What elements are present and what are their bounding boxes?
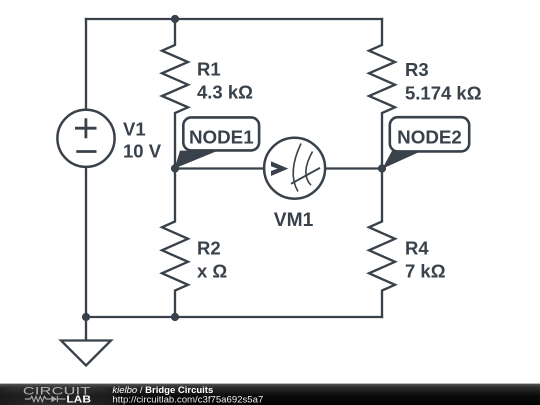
svg-text:VM1: VM1 — [274, 210, 314, 231]
svg-text:R3: R3 — [405, 59, 429, 80]
svg-text:7 kΩ: 7 kΩ — [405, 260, 446, 281]
svg-text:http://circuitlab.com/c3f75a69: http://circuitlab.com/c3f75a692s5a7 — [112, 395, 263, 405]
svg-text:5.174 kΩ: 5.174 kΩ — [405, 83, 482, 104]
svg-text:4.3 kΩ: 4.3 kΩ — [197, 82, 253, 103]
svg-text:NODE1: NODE1 — [189, 126, 254, 147]
svg-text:R1: R1 — [197, 59, 221, 80]
svg-text:R4: R4 — [405, 237, 429, 258]
svg-text:x Ω: x Ω — [197, 260, 227, 281]
svg-text:LAB: LAB — [66, 394, 91, 405]
svg-text:10 V: 10 V — [123, 141, 162, 162]
svg-text:NODE2: NODE2 — [397, 127, 462, 148]
svg-text:R2: R2 — [197, 237, 221, 258]
svg-text:V1: V1 — [123, 119, 146, 140]
